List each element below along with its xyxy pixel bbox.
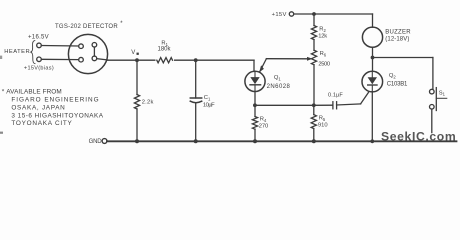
svg-text:R4: R4: [260, 117, 267, 123]
svg-text:OSAKA, JAPAN: OSAKA, JAPAN: [11, 105, 65, 112]
svg-text:TGS-202 DETECTOR: TGS-202 DETECTOR: [55, 24, 118, 30]
svg-text:180k: 180k: [158, 47, 172, 53]
svg-text:GND: GND: [89, 139, 103, 145]
svg-text:AVAILABLE FROM: AVAILABLE FROM: [6, 88, 62, 95]
svg-text:C103B1: C103B1: [387, 81, 408, 87]
svg-text:2.2k: 2.2k: [142, 100, 154, 106]
svg-text:Q1: Q1: [274, 75, 282, 81]
svg-text:HEATER: HEATER: [4, 49, 30, 55]
svg-text:3 15-6 HIGASHITOYONAKA: 3 15-6 HIGASHITOYONAKA: [11, 112, 103, 119]
svg-text:R2: R2: [319, 27, 326, 33]
svg-text:V: V: [131, 50, 135, 56]
svg-text:2500: 2500: [318, 61, 329, 67]
svg-text:(12-18V): (12-18V): [385, 37, 409, 43]
svg-text:FIGARO ENGINEERING: FIGARO ENGINEERING: [11, 97, 99, 104]
svg-text:R6: R6: [320, 51, 327, 57]
svg-text:270: 270: [259, 123, 268, 129]
svg-text:+15V(bias): +15V(bias): [24, 65, 54, 71]
svg-text:0.1µF: 0.1µF: [328, 92, 343, 98]
svg-text:R5: R5: [319, 116, 326, 122]
svg-text:C1: C1: [204, 95, 211, 101]
svg-text:+15V: +15V: [272, 12, 287, 18]
svg-text:910: 910: [318, 122, 328, 128]
svg-text:Q2: Q2: [389, 73, 397, 79]
svg-text:2N6028: 2N6028: [267, 84, 291, 90]
svg-text:10µF: 10µF: [203, 103, 215, 109]
svg-text:BUZZER: BUZZER: [385, 29, 411, 35]
svg-text:S1: S1: [439, 90, 446, 96]
svg-text:TOYONAKA CITY: TOYONAKA CITY: [11, 120, 72, 127]
svg-text:12k: 12k: [318, 33, 327, 39]
svg-text:SeekIC.com: SeekIC.com: [381, 129, 456, 143]
svg-text:+16.5V: +16.5V: [28, 34, 49, 40]
